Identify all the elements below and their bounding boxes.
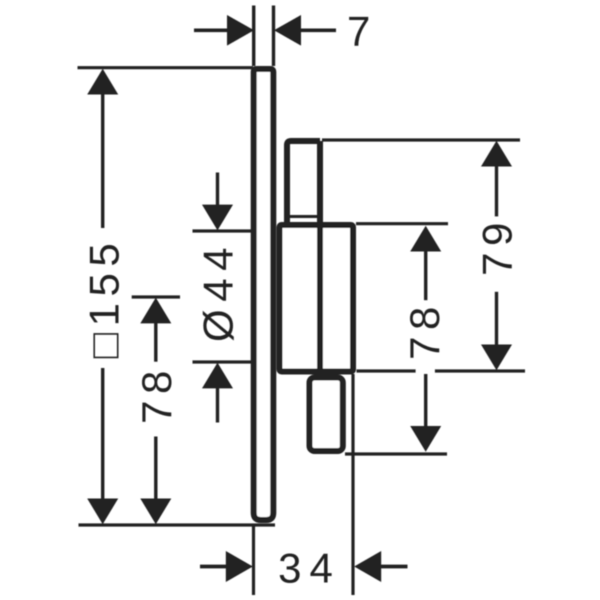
dimension 34: right leader with arrow: [354, 551, 381, 582]
dimension 78 right: vertical line upper segment with up arrow: [410, 226, 441, 252]
valve body: upper unit box (left side, top): [287, 141, 320, 225]
dimension 78 left: vertical line lower segment with down arrow: [154, 437, 157, 501]
extension line: cartridge top (dia 44 dim): [193, 229, 254, 232]
extension line: body back face, bottom (34 dim): [351, 374, 354, 595]
dimension 7: right leader with arrow: [274, 15, 301, 46]
extension line: body top going right (78 right dim): [356, 222, 448, 225]
dimension 79: vertical line upper segment with up arrow: [481, 141, 512, 167]
dimension 79: vertical line lower segment with down arrow: [495, 292, 498, 345]
extension line: cartridge bottom (dia 44 dim): [193, 360, 254, 363]
wall plate (escutcheon), side view: [254, 69, 274, 520]
dimension 34: left leader with arrow: [200, 565, 229, 569]
dimension 78 right: vertical line lower segment with down arrow: [424, 374, 427, 426]
extension line: upper unit top going right (79 dim): [322, 138, 520, 141]
dimension 78 left: vertical line upper segment with up arrow: [140, 298, 171, 324]
svg-text:□155: □155: [81, 237, 128, 358]
extension line: lower unit bottom going right (78 right dim bottom): [345, 452, 447, 455]
extension line: body bottom going right (79 dim bottom), broken at 78 line: [357, 369, 416, 372]
svg-text:7: 7: [347, 8, 370, 55]
extension line: plate front face, top (7 dim): [252, 6, 255, 67]
extension line: plate bottom (155 dim): [79, 523, 276, 526]
valve body: upper unit right edge continuing through housing: [317, 141, 323, 372]
valve body: lower unit box: [310, 378, 343, 452]
dimension square-155: vertical line lower segment with down arrow: [101, 368, 104, 500]
extension line: cartridge centerline (78 left dim): [132, 295, 180, 298]
extension line: plate top (155 dim): [78, 66, 254, 69]
svg-text:78: 78: [133, 364, 180, 424]
dimension dia44: lower arrow pointing up: [202, 363, 233, 389]
extension line: plate back face, top (7 dim): [272, 6, 275, 67]
valve body: upper unit bottom seam (thin): [288, 215, 318, 218]
svg-text:78: 78: [401, 300, 448, 360]
extension line: plate front face, bottom (34 dim): [252, 527, 255, 596]
svg-text:34: 34: [278, 545, 341, 592]
dimension square-155: vertical line upper segment with up arrow: [87, 69, 118, 95]
svg-text:Ø44: Ø44: [195, 240, 242, 342]
dimension 7: left leader with arrow: [194, 28, 229, 32]
svg-text:79: 79: [474, 216, 521, 276]
dimension dia44: upper arrow pointing down: [216, 173, 219, 208]
valve body: middle housing box: [280, 225, 354, 372]
